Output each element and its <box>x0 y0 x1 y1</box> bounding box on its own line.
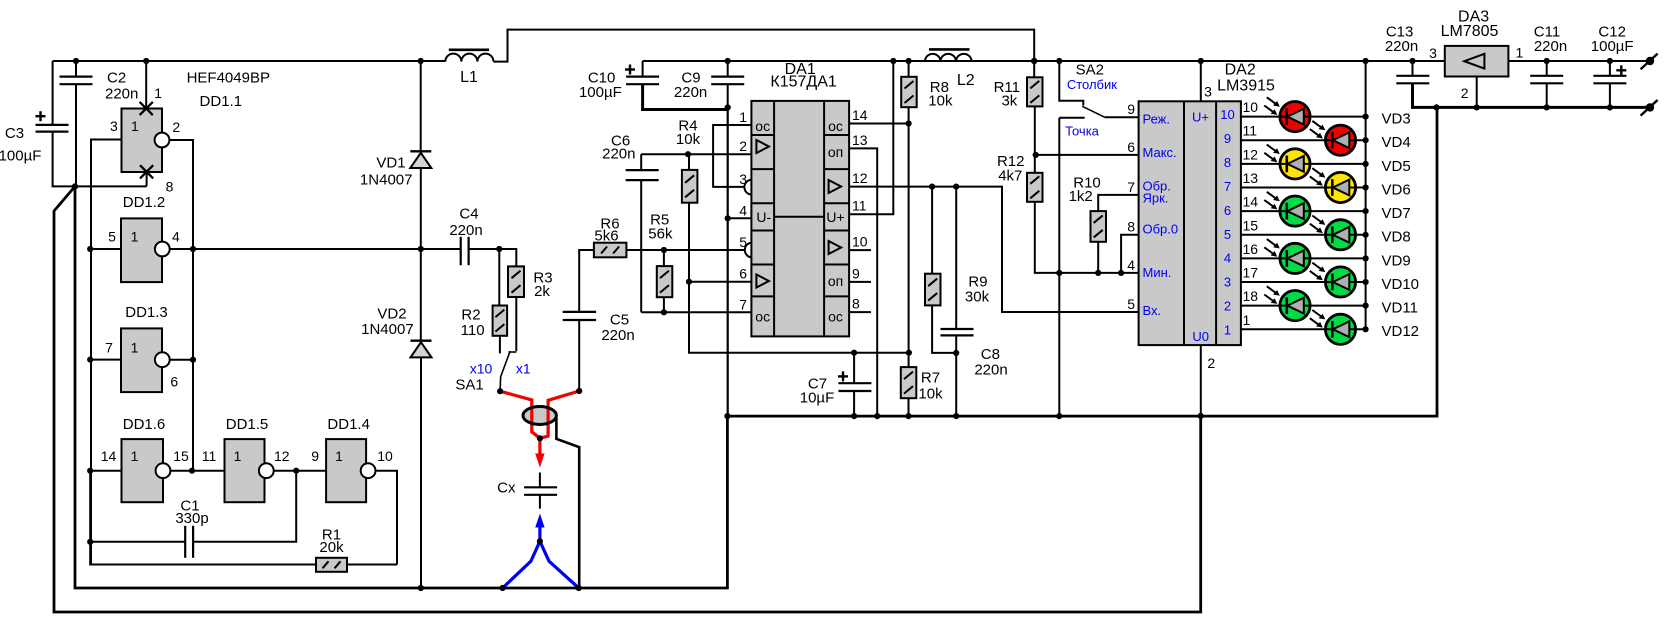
DA2 column number 2 (blue) <box>1224 299 1231 314</box>
svg-text:220n: 220n <box>1534 38 1567 55</box>
pin label 8 DA2 left <box>1127 219 1135 235</box>
wire R9 top lead <box>931 187 933 274</box>
wire DD1.1 pin 2 to vertical bus <box>170 140 193 471</box>
pin label 10 DD1.4 <box>377 448 393 464</box>
label C12 <box>1591 24 1634 55</box>
pin label 4 DA2 left <box>1127 257 1135 273</box>
red probe arrow <box>535 438 544 467</box>
wire C10 bottom to U- node <box>643 84 728 109</box>
svg-text:14: 14 <box>852 107 868 123</box>
label VD12 <box>1382 323 1420 340</box>
inversion circle DD1.1 output <box>155 133 170 148</box>
inversion circle DD1.3 output <box>155 352 170 367</box>
label Stolbik (blue) <box>1067 77 1117 92</box>
svg-text:4: 4 <box>739 202 747 218</box>
junction VD12 rail <box>1363 326 1369 332</box>
svg-text:VD7: VD7 <box>1382 205 1411 222</box>
svg-text:14: 14 <box>101 448 117 464</box>
svg-text:10k: 10k <box>676 131 701 148</box>
svg-text:220n: 220n <box>105 85 138 102</box>
svg-text:Реж.: Реж. <box>1143 112 1171 127</box>
inverter DD1.4 <box>326 439 366 502</box>
junction VD4 rail <box>1363 137 1369 143</box>
resistor R5 <box>657 266 673 297</box>
wire LED anode rail <box>1365 61 1367 329</box>
wire C5 lead down to probe <box>578 320 580 391</box>
label 1 inside DD1.2 <box>131 229 139 245</box>
red probe wire left <box>500 391 540 438</box>
label DA1 <box>770 61 837 90</box>
DA2 label Мин. (blue) <box>1143 265 1172 280</box>
svg-text:VD12: VD12 <box>1382 323 1420 340</box>
svg-text:7: 7 <box>1127 179 1135 195</box>
label DD1.2 <box>123 194 166 211</box>
label C2 <box>105 70 138 103</box>
diode VD1 <box>410 151 431 168</box>
DA1 amp triangle pin12 <box>829 180 842 193</box>
pin label 9 DA1 right <box>852 265 860 281</box>
label L1 <box>460 69 478 86</box>
label R1 <box>319 527 344 557</box>
DA1 amp triangle pin2 <box>756 140 769 153</box>
svg-text:12: 12 <box>274 448 290 464</box>
svg-text:3: 3 <box>739 171 747 187</box>
switch SA1 blade <box>500 351 510 391</box>
wire R4 node to C7 wire <box>689 282 909 353</box>
pin label 11 DD1.5 <box>202 448 217 464</box>
label DA2 <box>1217 62 1275 95</box>
label C1 <box>175 498 208 528</box>
pin label 16 DA2 right <box>1243 241 1259 257</box>
svg-text:DD1.3: DD1.3 <box>125 304 168 321</box>
svg-text:C8: C8 <box>981 346 1000 363</box>
inverter DD1.1 <box>122 109 163 173</box>
resistor R3 <box>508 266 524 297</box>
IC DA2 body <box>1139 101 1241 345</box>
resistor R11 top lead <box>1033 61 1035 77</box>
wire R3 bottom lead <box>515 297 517 351</box>
svg-text:10: 10 <box>377 448 393 464</box>
wire DA2 output pin 16 to VD9 <box>1241 257 1366 259</box>
capacitor C12 leads <box>1609 61 1611 107</box>
wire DA1 pin 13 down to ground <box>849 148 877 416</box>
red probe wire right <box>540 391 579 438</box>
wire C4 to R3 corner <box>469 249 517 266</box>
crossed pin 1 of DD1.1 <box>140 102 153 115</box>
label R8 <box>928 79 953 109</box>
svg-text:оп: оп <box>828 273 843 289</box>
resistor R5 top lead <box>663 250 665 266</box>
label C10 <box>579 70 622 101</box>
wire DA2 output pin 1 to VD12 <box>1241 328 1366 330</box>
svg-text:3: 3 <box>110 118 118 134</box>
svg-text:1: 1 <box>131 340 139 356</box>
svg-text:8: 8 <box>1127 219 1135 235</box>
wire R12 bottom / DA2 pin 4 <box>1035 202 1139 273</box>
label SA2 <box>1076 62 1104 79</box>
capacitor C8 <box>941 329 974 335</box>
svg-text:VD4: VD4 <box>1382 134 1411 151</box>
pin label 3 DA3 <box>1429 45 1437 61</box>
pin label 1 DD1.1 <box>154 85 162 101</box>
svg-text:56k: 56k <box>648 225 673 242</box>
blue probe arrow <box>535 514 544 542</box>
svg-text:1N4007: 1N4007 <box>361 321 414 338</box>
pin label 11 DA2 right <box>1243 123 1258 139</box>
LED VD10 <box>1310 263 1356 297</box>
connector output + <box>1641 54 1658 70</box>
svg-text:100µF: 100µF <box>0 148 41 165</box>
blue probe wire left leg <box>503 541 540 588</box>
label VD10 <box>1382 276 1420 293</box>
wire C6 bottom lead <box>640 180 642 312</box>
inverter DD1.5 <box>225 439 265 502</box>
capacitor C9 <box>711 77 744 85</box>
label HEF4049BP <box>187 69 270 86</box>
svg-text:К157ДА1: К157ДА1 <box>770 74 837 91</box>
inversion circle DA1 pin 3 <box>744 180 759 195</box>
junction VD8 rail <box>1363 232 1369 238</box>
wire DA3 pin 2 to ground <box>1476 77 1478 108</box>
svg-text:7: 7 <box>1224 179 1231 194</box>
svg-text:220n: 220n <box>449 222 482 239</box>
wire DD1.3 pin 7 <box>91 359 121 361</box>
stub DA1 pin 9 <box>849 281 871 283</box>
label C8 <box>974 346 1007 379</box>
label R6 <box>594 215 619 244</box>
pin label 4 DA1 left <box>739 202 747 218</box>
pin label 2 DA3 <box>1461 85 1469 101</box>
svg-text:Мин.: Мин. <box>1143 265 1172 280</box>
inversion circle DD1.5 output <box>259 463 274 478</box>
wire DA2 output pin 18 to VD11 <box>1241 305 1366 307</box>
svg-text:DD1.2: DD1.2 <box>123 194 166 211</box>
wire DA2 output pin 14 to VD7 <box>1241 210 1366 212</box>
svg-text:U+: U+ <box>826 209 844 225</box>
pin label 9 DA2 left <box>1127 101 1135 117</box>
resistor R11 <box>1027 77 1043 106</box>
svg-text:11: 11 <box>1243 123 1258 139</box>
wire DA3 output <box>1508 60 1650 62</box>
junction VD10 rail <box>1363 279 1369 285</box>
capacitor C11 leads <box>1546 61 1548 107</box>
svg-text:1: 1 <box>131 229 139 245</box>
svg-text:VD5: VD5 <box>1382 158 1411 175</box>
pin label 7 DA1 left <box>739 296 747 312</box>
DA2 column number 7 (blue) <box>1224 179 1231 194</box>
capacitor C13 top lead <box>1412 61 1414 76</box>
label VD4 <box>1382 134 1411 151</box>
junction VD11 rail <box>1363 303 1369 309</box>
junction VD9 rail <box>1363 255 1369 261</box>
wire DA2 output pin 10 to VD3 <box>1241 116 1366 118</box>
svg-text:5: 5 <box>1224 227 1231 242</box>
capacitor C8 top lead <box>955 187 957 329</box>
svg-text:8: 8 <box>852 296 860 312</box>
wire C1 net <box>90 471 296 542</box>
svg-text:4: 4 <box>172 229 180 245</box>
DA2 column number 4 (blue) <box>1224 251 1231 266</box>
LED VD3 <box>1264 97 1310 131</box>
wire C2 bottom lead <box>75 84 77 186</box>
svg-text:4k7: 4k7 <box>998 167 1022 184</box>
label DD1.3 <box>125 304 168 321</box>
switch SA2 blade <box>1082 106 1104 117</box>
inversion circle DD1.4 output <box>361 463 376 478</box>
wire C8 bottom lead <box>955 335 957 416</box>
svg-text:3: 3 <box>1429 45 1437 61</box>
svg-text:R7: R7 <box>921 370 940 387</box>
label C13 <box>1385 24 1418 55</box>
resistor R8 <box>901 77 917 107</box>
label 1 inside DD1.1 <box>131 118 139 134</box>
svg-text:DD1.6: DD1.6 <box>123 416 166 433</box>
pin label 3 DA1 left <box>739 171 747 187</box>
wire ground left vertical to mid ground rail <box>75 186 727 588</box>
wire DD1.2 pin4 to C4 <box>171 248 461 250</box>
pin label 10 DA2 right <box>1243 99 1259 115</box>
resistor R6 <box>594 243 627 258</box>
svg-text:13: 13 <box>1243 170 1259 186</box>
capacitor C1 <box>185 526 193 558</box>
wire DA2 output pin 17 to VD10 <box>1241 281 1366 283</box>
pin label 9 DD1.4 <box>311 448 319 464</box>
DA1 cell label oc pin8 <box>828 308 843 324</box>
DA1 cell label U+ <box>826 209 844 225</box>
DA2 column number 6 (blue) <box>1224 203 1231 218</box>
wire R8 to R7 vertical <box>908 107 910 367</box>
pin label 14 DA1 right <box>852 107 868 123</box>
wire V+ rail (C10 to DA3) <box>643 60 1445 62</box>
label VD5 <box>1382 158 1411 175</box>
svg-text:4: 4 <box>1127 257 1135 273</box>
pin label 8 DA1 right <box>852 296 860 312</box>
junction VD3 rail <box>1363 114 1369 120</box>
svg-text:ос: ос <box>828 308 843 324</box>
capacitor C5 <box>563 312 596 320</box>
svg-text:2: 2 <box>739 138 747 154</box>
svg-text:HEF4049BP: HEF4049BP <box>187 69 270 86</box>
resistor R12 <box>1027 173 1043 202</box>
wire DA1 pins 1-3 hook <box>713 125 752 187</box>
DA2 label Вх. (blue) <box>1143 303 1162 318</box>
pin label 8 DD1.1 <box>166 179 174 195</box>
stub DA1 pin 10 <box>849 249 871 251</box>
svg-text:VD9: VD9 <box>1382 252 1411 269</box>
svg-text:2: 2 <box>1461 85 1469 101</box>
pin label 5 DD1.2 <box>108 229 116 245</box>
label R10 <box>1069 175 1101 206</box>
label VD1 <box>360 154 413 188</box>
svg-text:12: 12 <box>852 170 868 186</box>
capacitor C7 top lead <box>853 353 855 383</box>
inductor L2 <box>925 49 972 61</box>
capacitor C3 top lead <box>52 61 54 125</box>
wire R11 to R12 node <box>1034 106 1036 172</box>
DA2 label Обр.0 (blue) <box>1143 222 1179 237</box>
wire DA1 pin 14 <box>849 123 909 125</box>
wire R1 left lead <box>90 542 316 565</box>
svg-text:5k6: 5k6 <box>594 228 618 245</box>
wire DA2 output pin 15 to VD8 <box>1241 234 1366 236</box>
svg-text:3k: 3k <box>1001 93 1017 110</box>
inversion circle DD1.2 output <box>155 242 170 257</box>
svg-text:1: 1 <box>1243 312 1251 328</box>
wire C13 bottom to ground wire <box>1413 83 1651 107</box>
pin label 14 DA2 right <box>1243 194 1259 210</box>
svg-text:8: 8 <box>1224 155 1231 170</box>
label R3 <box>533 269 552 300</box>
svg-text:11: 11 <box>202 448 217 464</box>
DA2 column number 3 (blue) <box>1224 275 1231 290</box>
crossed pin 8 of DD1.1 <box>140 165 153 178</box>
wire DD1.2 pin 5 <box>91 248 121 250</box>
capacitor C11 <box>1530 76 1563 84</box>
svg-text:13: 13 <box>852 132 868 148</box>
svg-text:9: 9 <box>1127 101 1135 117</box>
wire DA1 pin 2 <box>641 153 751 155</box>
svg-text:VD6: VD6 <box>1382 181 1411 198</box>
DA2 label Ярк. (blue) <box>1143 191 1169 206</box>
switch SA2 contact Tochka <box>1059 117 1084 119</box>
svg-text:15: 15 <box>173 448 189 464</box>
wire mid ground rail <box>727 107 1437 416</box>
switch SA1 x1 contact tick <box>509 351 517 353</box>
junction VD6 rail <box>1363 184 1369 190</box>
label 1 inside DD1.4 <box>335 448 343 464</box>
svg-text:C2: C2 <box>107 70 126 87</box>
pin label 5 DA2 left <box>1127 296 1135 312</box>
inversion circle DD1.6 output <box>156 463 171 478</box>
DA2 column number 9 (blue) <box>1224 131 1231 146</box>
DA2 column number 10 (blue) <box>1220 107 1234 122</box>
wire C7 bottom lead <box>853 391 855 416</box>
LED VD4 <box>1310 121 1356 155</box>
capacitor C6 top lead <box>640 154 642 170</box>
label VD9 <box>1382 252 1411 269</box>
junction VD5 rail <box>1363 161 1369 167</box>
label C7 <box>800 376 835 407</box>
capacitor C3 <box>36 111 69 131</box>
capacitor C13 <box>1396 76 1429 84</box>
wire DA2 pin 8 (Обр.0) <box>1121 235 1139 273</box>
wire ground diagonal to bottom rail <box>54 186 1201 612</box>
svg-text:R2: R2 <box>461 306 480 323</box>
LED VD11 <box>1264 286 1310 320</box>
wire DD1.1 pin 3 to left bus <box>91 140 122 565</box>
label C6 <box>602 133 635 163</box>
svg-text:Cx: Cx <box>497 479 516 496</box>
svg-text:6: 6 <box>1224 203 1231 218</box>
label x10 (blue) <box>470 361 493 377</box>
capacitor C2 <box>60 77 93 85</box>
LED VD9 <box>1264 239 1310 273</box>
inverter DD1.3 <box>121 328 162 392</box>
svg-text:x1: x1 <box>516 361 531 377</box>
svg-text:6: 6 <box>170 374 178 390</box>
svg-text:U0: U0 <box>1192 329 1209 344</box>
svg-text:4: 4 <box>1224 251 1231 266</box>
wire DA1 pin 4 <box>728 217 752 219</box>
DA2 column number 8 (blue) <box>1224 155 1231 170</box>
DA1 cell label U- <box>756 209 771 225</box>
pin label 2 DA2 <box>1207 355 1215 371</box>
DA2 column number 1 (blue) <box>1224 323 1231 338</box>
label 1 inside DD1.3 <box>131 340 139 356</box>
pin label 4 DD1.2 <box>172 229 180 245</box>
switch SA2 contact Stolbik <box>1059 61 1083 106</box>
LED VD5 <box>1264 145 1310 179</box>
label VD11 <box>1382 300 1418 317</box>
wire C3 to ground node A <box>53 132 147 187</box>
svg-text:C3: C3 <box>5 125 24 142</box>
pin label 15 DA2 right <box>1243 217 1259 233</box>
wire Tochka to ground rail <box>1058 118 1060 416</box>
inversion circle DA1 pin 5 <box>745 243 760 258</box>
pin label 17 DA2 right <box>1243 265 1259 281</box>
svg-text:оп: оп <box>828 144 843 160</box>
DA2 label Макс. (blue) <box>1143 145 1177 160</box>
DA2 column number 5 (blue) <box>1224 227 1231 242</box>
DA1 amp triangle pin6 <box>756 275 769 288</box>
capacitor C10 top lead <box>642 61 644 77</box>
svg-text:Вх.: Вх. <box>1143 303 1162 318</box>
capacitor C9 leads <box>727 61 729 108</box>
inverter DD1.2 <box>121 218 162 282</box>
wire R6-C5 corner <box>579 250 594 312</box>
capacitor C2 top lead <box>75 61 77 77</box>
wire U- vertical <box>727 108 729 417</box>
svg-text:VD8: VD8 <box>1382 229 1411 246</box>
label R2 <box>461 306 485 339</box>
toroid core outline <box>523 407 556 425</box>
label C4 <box>449 206 482 240</box>
svg-text:100µF: 100µF <box>579 84 622 101</box>
label R12 <box>997 153 1025 185</box>
wire R1 right lead <box>347 564 397 566</box>
pin label 14 DD1.6 <box>101 448 117 464</box>
svg-text:220n: 220n <box>602 146 635 163</box>
svg-text:5: 5 <box>1127 296 1135 312</box>
svg-text:Макс.: Макс. <box>1143 145 1177 160</box>
resistor R1 <box>316 558 347 572</box>
pin label 7 DD1.3 <box>105 340 113 356</box>
label VD7 <box>1382 205 1411 222</box>
wire VD2 to ground rail <box>420 357 422 588</box>
pin label 2 DD1.1 <box>172 119 180 135</box>
wire DA2 pin 2 to ground rail <box>1200 345 1202 416</box>
svg-text:220n: 220n <box>601 327 634 344</box>
black wire through toroid <box>556 418 579 589</box>
DA1 amp triangle pin10 <box>829 241 842 254</box>
DA2 label U0 (blue) <box>1192 329 1209 344</box>
wire VD1 to node <box>420 168 422 341</box>
svg-text:1: 1 <box>131 448 139 464</box>
label DA3 <box>1441 9 1499 41</box>
pin label 3 DD1.1 <box>110 118 118 134</box>
blue probe wire right leg <box>540 541 579 588</box>
svg-text:DD1.1: DD1.1 <box>200 93 243 110</box>
svg-text:1: 1 <box>154 85 162 101</box>
svg-text:U-: U- <box>756 209 771 225</box>
resistor R8 top lead <box>908 61 910 77</box>
svg-text:10: 10 <box>852 234 868 250</box>
inductor L1 <box>445 50 493 62</box>
svg-text:1: 1 <box>234 448 242 464</box>
pin label 13 DA1 right <box>852 132 868 148</box>
wire R7 bottom lead <box>908 398 910 416</box>
label VD3 <box>1382 111 1411 128</box>
